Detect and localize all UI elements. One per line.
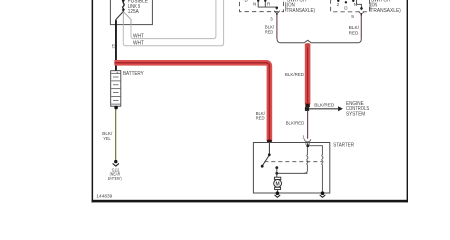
svg-text:25: 25 <box>111 43 116 48</box>
svg-text:BLK/RED: BLK/RED <box>314 103 335 109</box>
svg-text:STARTER: STARTER <box>333 142 354 148</box>
svg-text:RED: RED <box>256 116 265 122</box>
svg-text:SYSTEM: SYSTEM <box>346 112 365 118</box>
svg-text:2: 2 <box>337 2 340 7</box>
svg-text:D: D <box>245 0 249 2</box>
svg-text:D: D <box>344 5 348 10</box>
svg-text:+: + <box>116 71 119 76</box>
svg-text:TRANSAXLE): TRANSAXLE) <box>287 8 316 14</box>
svg-text:BATTERY): BATTERY) <box>108 176 122 181</box>
svg-text:1: 1 <box>302 134 305 139</box>
svg-text:BLK/: BLK/ <box>349 25 360 31</box>
svg-text:WHT: WHT <box>133 40 144 46</box>
svg-text:R: R <box>267 2 271 7</box>
svg-text:M: M <box>276 181 280 187</box>
svg-text:WHT: WHT <box>133 34 144 40</box>
svg-text:RED: RED <box>265 29 274 35</box>
svg-text:N: N <box>253 2 256 7</box>
svg-text:3: 3 <box>270 16 273 21</box>
svg-text:125A: 125A <box>128 9 140 15</box>
svg-text:YEL: YEL <box>103 136 111 142</box>
svg-text:TRANSAXLE): TRANSAXLE) <box>370 8 401 14</box>
svg-text:BLK/RED: BLK/RED <box>286 120 305 126</box>
svg-text:RED: RED <box>349 30 359 36</box>
svg-text:144839: 144839 <box>96 193 112 199</box>
svg-text:BATTERY: BATTERY <box>123 71 144 77</box>
svg-text:BLK/RED: BLK/RED <box>285 72 305 78</box>
svg-text:9: 9 <box>351 14 354 19</box>
